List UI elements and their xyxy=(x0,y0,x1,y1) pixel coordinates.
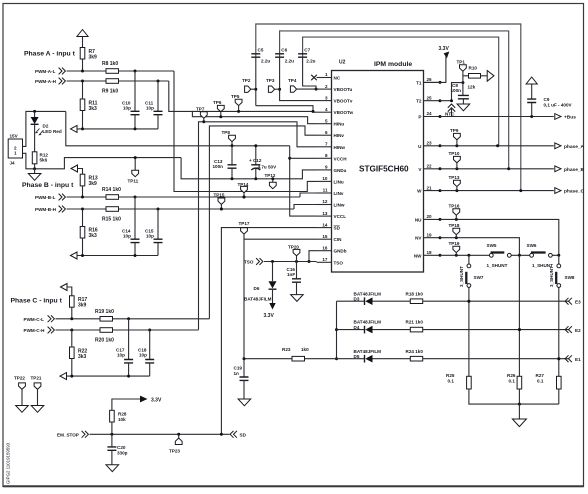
svg-text:1: 1 xyxy=(325,72,328,77)
svg-text:GIPG2 11019159593: GIPG2 11019159593 xyxy=(6,442,11,484)
U2 pin 9 GNDa xyxy=(317,169,332,171)
svg-text:3k3: 3k3 xyxy=(89,106,98,112)
U2 pin 8 VCCH xyxy=(317,157,332,159)
wire diode bus vertical xyxy=(336,301,338,359)
svg-text:C9: C9 xyxy=(544,97,550,102)
input E2 xyxy=(565,326,572,333)
svg-text:Phase B - inpu t: Phase B - inpu t xyxy=(22,182,74,189)
U2 pin 15 CIN xyxy=(317,238,332,240)
svg-text:10: 10 xyxy=(322,176,328,181)
buffer output arrow after R10 xyxy=(481,75,488,77)
resistor R20 1k0 xyxy=(100,328,113,333)
wire R28 to 3.3V arrow xyxy=(112,399,140,410)
svg-text:R10: R10 xyxy=(469,66,478,71)
wire R9 to A-H riser xyxy=(119,80,169,82)
svg-text:R23: R23 xyxy=(282,347,291,352)
svg-text:1k0: 1k0 xyxy=(301,347,309,352)
svg-text:3_SHUNT: 3_SHUNT xyxy=(549,266,554,287)
svg-text:11: 11 xyxy=(323,188,328,193)
input E3 xyxy=(565,298,572,305)
svg-text:R15 1k0: R15 1k0 xyxy=(102,217,121,223)
svg-text:10p: 10p xyxy=(139,353,147,358)
svg-text:NW: NW xyxy=(414,253,422,258)
svg-text:TP18: TP18 xyxy=(449,223,460,228)
svg-text:NV: NV xyxy=(415,236,422,241)
svg-text:STGIF5CH60: STGIF5CH60 xyxy=(359,165,409,174)
wire SD riser from EM_STOP to pin14 xyxy=(221,228,316,435)
U2 pin 11 LINv xyxy=(317,192,332,194)
svg-text:PWM-C-H: PWM-C-H xyxy=(24,328,46,333)
resistor R16 3k3 xyxy=(80,227,85,239)
U2 pin 13 VCCL xyxy=(317,215,332,217)
input SD arrow xyxy=(230,431,237,438)
svg-text:LINw: LINw xyxy=(334,203,345,208)
svg-text:LINu: LINu xyxy=(334,179,344,184)
pin 1 no-connect X xyxy=(311,75,317,80)
svg-text:100n: 100n xyxy=(213,164,224,169)
wire SW7 to R25 xyxy=(468,287,470,376)
svg-text:15V: 15V xyxy=(10,134,19,139)
svg-text:2: 2 xyxy=(325,84,328,89)
svg-text:SW6: SW6 xyxy=(527,243,537,248)
svg-text:3.3V: 3.3V xyxy=(439,46,450,52)
svg-text:E2: E2 xyxy=(575,328,581,333)
diode D6 BAT48JFILM to 3.3V xyxy=(272,262,274,282)
svg-text:W: W xyxy=(417,189,422,194)
wire J4 pin2 to 15V rail xyxy=(23,111,66,146)
svg-text:SD: SD xyxy=(334,226,341,231)
ground under C16 xyxy=(291,295,304,302)
svg-text:VBOOTu: VBOOTu xyxy=(334,87,353,92)
capacitor C9 0.1uF 400V xyxy=(531,84,533,99)
svg-text:5: 5 xyxy=(325,118,328,123)
svg-text:NTC: NTC xyxy=(445,112,455,117)
U2 pin 4 VBOOTw xyxy=(317,111,332,113)
wire A-L riser to LINu bus xyxy=(174,71,317,192)
svg-text:2.2u: 2.2u xyxy=(285,59,294,64)
svg-text:TP2: TP2 xyxy=(242,78,251,83)
svg-text:phase_C: phase_C xyxy=(564,189,585,195)
svg-text:E1: E1 xyxy=(575,357,581,362)
svg-text:3k9: 3k9 xyxy=(89,181,98,187)
svg-text:10p: 10p xyxy=(117,353,125,358)
svg-text:10p: 10p xyxy=(146,106,154,111)
svg-text:23: 23 xyxy=(427,141,433,146)
resistor R11 3k3 xyxy=(80,99,85,111)
svg-text:1nF: 1nF xyxy=(287,272,295,277)
svg-text:TP10: TP10 xyxy=(449,151,460,156)
U2 pin 18 NW xyxy=(424,254,441,256)
svg-text:100n: 100n xyxy=(451,88,462,93)
wire R27 to bottom rail xyxy=(558,389,560,404)
U2 pin 20 NU xyxy=(424,218,441,220)
svg-text:18: 18 xyxy=(427,250,433,255)
ground under C8 xyxy=(457,104,470,111)
wire R25 to bottom rail xyxy=(469,389,559,404)
wire R7 bottom to PWM-A-L line xyxy=(82,59,84,71)
svg-text:NU: NU xyxy=(415,217,422,222)
svg-text:R25: R25 xyxy=(446,373,455,378)
wire phase_B feedback row xyxy=(77,255,158,257)
ground rail under C13 C12 xyxy=(181,158,316,179)
svg-text:3k9: 3k9 xyxy=(78,303,87,309)
wire T1 to 3.3V xyxy=(424,58,446,82)
wire C-L riser to HINv bus xyxy=(209,126,316,319)
resistor R15 1k0 xyxy=(106,207,119,212)
wire PWM-B-L line xyxy=(67,196,107,198)
wire EM_STOP row to SD xyxy=(90,433,230,435)
svg-text:TP4: TP4 xyxy=(288,78,297,83)
wire TP17 CIN to pin15 and C19 leg xyxy=(243,234,245,359)
svg-text:12k: 12k xyxy=(468,85,476,90)
wire R7 top to power arrow xyxy=(82,37,84,48)
svg-text:PWM-C-L: PWM-C-L xyxy=(24,317,45,322)
svg-text:2.2u: 2.2u xyxy=(261,59,270,64)
svg-text:5k6: 5k6 xyxy=(40,158,48,163)
wire arrow to R13 top xyxy=(78,169,83,175)
svg-text:C5: C5 xyxy=(258,48,264,53)
U2 pin 22 V xyxy=(424,168,441,170)
wire PWM-C-H line xyxy=(56,329,101,331)
resistor R19 1k0 xyxy=(100,317,113,322)
svg-text:0.1: 0.1 xyxy=(537,379,544,384)
wires R22 xyxy=(71,330,73,376)
U2 pin 6 HINv xyxy=(317,134,332,136)
resistor R17 3k9 xyxy=(70,296,75,307)
svg-text:TP8: TP8 xyxy=(222,130,231,135)
U2 pin 3 VBOOTv xyxy=(317,100,332,102)
svg-text:phase_B: phase_B xyxy=(564,167,585,173)
svg-text:TP3: TP3 xyxy=(266,78,275,83)
wire B-L step into pin11 xyxy=(300,193,317,197)
input E1 xyxy=(565,355,572,362)
svg-text:PWM-B-L: PWM-B-L xyxy=(35,195,56,200)
svg-text:TP16: TP16 xyxy=(449,204,460,209)
svg-text:TP19: TP19 xyxy=(449,241,460,246)
wire R11 top xyxy=(82,81,84,99)
wire PWM-C-L line xyxy=(56,318,101,320)
U2 pin 5 HINu xyxy=(317,123,332,125)
U2 pin 7 HINw xyxy=(317,146,332,148)
wire R13 bottom xyxy=(82,186,84,197)
wire NV column through NW to R26 xyxy=(518,255,520,376)
svg-text:R19 1k0: R19 1k0 xyxy=(95,309,114,315)
svg-text:SD: SD xyxy=(240,433,247,438)
wire NV rail to R26 column xyxy=(440,238,519,256)
phase_B feedback net arrow xyxy=(71,252,78,259)
wires R16 xyxy=(82,209,84,256)
wire R24 to E1 xyxy=(423,358,569,360)
svg-text:TP7: TP7 xyxy=(196,107,205,112)
svg-text:TP1: TP1 xyxy=(457,60,466,65)
svg-text:25: 25 xyxy=(427,95,433,100)
wire P rail to +Bus xyxy=(440,116,554,118)
svg-text:J4: J4 xyxy=(10,161,16,166)
svg-text:19: 19 xyxy=(427,232,433,237)
svg-text:P: P xyxy=(418,115,421,120)
svg-text:D2: D2 xyxy=(43,124,49,129)
svg-text:IPM module: IPM module xyxy=(374,61,412,68)
resistor R9 1k0 xyxy=(106,79,119,84)
phase_B upper net arrow xyxy=(71,165,78,172)
U2 pin 17 TSO xyxy=(317,261,332,263)
svg-text:TP17: TP17 xyxy=(239,221,250,226)
wire NU rail to R27 column xyxy=(440,219,559,255)
svg-text:10p: 10p xyxy=(123,106,131,111)
U2 pin 12 LINw xyxy=(317,204,332,206)
svg-text:3.3V: 3.3V xyxy=(264,313,275,319)
wire R20 to C-H riser xyxy=(113,329,199,331)
LED D2 Red xyxy=(34,112,36,117)
wire C6 top bus to phase_B column xyxy=(280,31,509,169)
svg-text:TSO: TSO xyxy=(334,260,344,265)
svg-text:3k9: 3k9 xyxy=(89,55,98,61)
svg-text:VBOOTv: VBOOTv xyxy=(334,99,353,104)
wire PWM-A-H line xyxy=(67,80,107,82)
wire pin16 GNDb leg to TSO row xyxy=(309,251,317,262)
U2 pin 25 T2 xyxy=(424,100,441,102)
svg-text:0,1 uF - 400V: 0,1 uF - 400V xyxy=(544,102,573,107)
wire V rail to phase_B xyxy=(440,168,554,170)
wire A-H riser to HINu bus xyxy=(169,81,317,124)
svg-text:8: 8 xyxy=(325,153,328,158)
U2 pin 10 LINu xyxy=(317,180,332,182)
test point TP23 xyxy=(175,438,182,444)
wire 15V rail down to VCC rail xyxy=(66,111,290,145)
svg-text:10p: 10p xyxy=(146,234,154,239)
ground below shunt rail xyxy=(518,404,520,419)
svg-text:6: 6 xyxy=(325,130,328,135)
op-amp U2 IPM module box xyxy=(332,71,424,273)
svg-text:R14 1k0: R14 1k0 xyxy=(102,187,121,193)
svg-text:TP22: TP22 xyxy=(14,376,25,381)
output arrow phase_B xyxy=(555,166,561,172)
svg-text:GNDa: GNDa xyxy=(334,168,347,173)
svg-text:VCCH: VCCH xyxy=(334,156,348,161)
resistor R12 5k6 xyxy=(32,152,37,164)
wire C6 bottom into pin3 xyxy=(280,57,317,100)
svg-text:T2: T2 xyxy=(416,99,422,104)
svg-text:BAT48JFILM: BAT48JFILM xyxy=(354,349,382,354)
NTC marker under T2 xyxy=(448,104,455,112)
wire R8 to corner riser xyxy=(119,70,175,72)
power arrow above R7 xyxy=(77,30,88,37)
wire R14 to pin11 riser xyxy=(119,196,301,198)
svg-text:HINv: HINv xyxy=(334,133,345,138)
svg-text:PWM-A-H: PWM-A-H xyxy=(35,79,57,84)
wire TSO row into pin17 xyxy=(264,261,317,263)
U2 pin 26 T1 xyxy=(424,81,441,83)
svg-text:12: 12 xyxy=(322,199,328,204)
wire T2 to C8 branch xyxy=(440,83,463,101)
svg-text:16: 16 xyxy=(322,245,328,250)
wire W rail to phase_C xyxy=(440,190,554,192)
svg-text:SW8: SW8 xyxy=(565,275,575,280)
svg-text:26: 26 xyxy=(427,77,433,82)
output arrow phase_C xyxy=(555,188,561,194)
svg-text:3k3: 3k3 xyxy=(89,233,98,239)
svg-text:1: 1 xyxy=(14,151,17,156)
svg-text:TP6: TP6 xyxy=(213,100,222,105)
svg-text:2.2u: 2.2u xyxy=(306,59,315,64)
wire bus y111.4 to pin4 xyxy=(192,110,316,113)
resistor R8 1k0 xyxy=(106,69,119,74)
svg-text:R26: R26 xyxy=(507,373,516,378)
VCC rail with TP8 C13 C12 xyxy=(290,146,317,216)
svg-text:9: 9 xyxy=(325,165,328,170)
svg-text:24: 24 xyxy=(427,111,433,116)
svg-text:R8 1k0: R8 1k0 xyxy=(102,61,118,67)
svg-text:3: 3 xyxy=(325,95,328,100)
svg-text:R21 1k0: R21 1k0 xyxy=(406,320,424,325)
svg-text:LINv: LINv xyxy=(334,191,344,196)
svg-text:E3: E3 xyxy=(575,299,581,304)
wire VCC rail to pin8 VCCH xyxy=(290,157,317,159)
svg-text:HINu: HINu xyxy=(334,122,345,127)
wire C7 bottom into pin2 xyxy=(303,57,316,89)
wire PWM-B-H line xyxy=(67,208,107,210)
svg-text:22: 22 xyxy=(427,164,433,169)
svg-text:R27: R27 xyxy=(536,373,545,378)
svg-text:C6: C6 xyxy=(281,48,287,53)
svg-text:Phase C - inpu t: Phase C - inpu t xyxy=(11,298,63,305)
svg-text:TP21: TP21 xyxy=(31,376,42,381)
wire C5 top bus to phase_C column xyxy=(256,24,521,191)
svg-text:0.1: 0.1 xyxy=(448,379,455,384)
U2 pin 23 U xyxy=(424,145,441,147)
svg-text:10k: 10k xyxy=(118,417,126,422)
svg-text:TP15: TP15 xyxy=(214,193,225,198)
svg-text:TP20: TP20 xyxy=(288,245,299,250)
output arrow +Bus xyxy=(555,114,561,120)
svg-text:LED Red: LED Red xyxy=(43,129,62,134)
svg-text:17: 17 xyxy=(322,257,328,262)
svg-text:HINw: HINw xyxy=(334,145,346,150)
svg-text:SW7: SW7 xyxy=(474,275,484,280)
wire R19 to C-L riser xyxy=(113,318,210,320)
svg-text:PWM-B-H: PWM-B-H xyxy=(35,207,57,212)
svg-text:R24 1k0: R24 1k0 xyxy=(406,349,424,354)
phase_A feedback net arrow xyxy=(71,125,78,132)
phase_C upper net arrow xyxy=(61,284,68,291)
U2 pin 14 SD xyxy=(317,227,332,229)
output arrow phase_A xyxy=(555,143,561,149)
resistor R7 3k9 xyxy=(80,48,85,60)
U2 pin 2 VBOOTu xyxy=(317,88,332,90)
svg-text:TP11: TP11 xyxy=(128,179,139,184)
phase_C feedback net arrow xyxy=(60,373,67,380)
svg-text:VBOOTw: VBOOTw xyxy=(334,110,354,115)
svg-text:TP5: TP5 xyxy=(231,94,240,99)
svg-text:PWM-A-L: PWM-A-L xyxy=(35,69,56,74)
wire R21 to E2 xyxy=(423,329,569,331)
wire C7 top bus to phase_A column xyxy=(303,37,499,146)
wire U rail to phase_A xyxy=(440,145,554,147)
svg-text:Phase A - inpu t: Phase A - inpu t xyxy=(24,51,76,58)
wire C5 bottom to pin4 step xyxy=(255,57,257,105)
U2 pin 16 GNDb xyxy=(317,250,332,252)
svg-text:VCCL: VCCL xyxy=(334,214,347,219)
svg-text:4.7u 50V: 4.7u 50V xyxy=(258,164,278,169)
wire B-H step into pin12 xyxy=(294,205,317,210)
wire phase_A feedback row xyxy=(77,128,158,130)
wire PWM-A-L line xyxy=(67,70,107,72)
svg-text:13: 13 xyxy=(322,211,328,216)
svg-text:U2: U2 xyxy=(339,60,346,66)
svg-text:7: 7 xyxy=(325,142,328,147)
wire J4 pin1 to ground rail xyxy=(23,153,182,169)
connector J4 15V xyxy=(8,139,22,158)
ground below J4 xyxy=(34,169,36,174)
wire R18 to E3 xyxy=(423,300,569,302)
svg-text:14: 14 xyxy=(322,222,328,227)
svg-text:4: 4 xyxy=(325,107,328,112)
wire arrow to R17 top xyxy=(67,287,72,296)
wire C-H riser to HINw bus xyxy=(199,122,317,330)
svg-text:EM_STOP: EM_STOP xyxy=(57,432,79,437)
wire R17 bottom xyxy=(71,307,73,319)
svg-text:TP9: TP9 xyxy=(450,128,459,133)
wire SW8 to R27 xyxy=(558,287,560,376)
svg-text:C7: C7 xyxy=(304,48,310,53)
svg-text:TSO: TSO xyxy=(244,260,254,265)
svg-text:BAT48JFILM: BAT48JFILM xyxy=(244,297,272,302)
wire TP4 to pin2 xyxy=(297,88,317,90)
svg-text:C20: C20 xyxy=(117,445,126,450)
wire R15 to pin12 riser xyxy=(119,208,295,210)
wire R11 bottom to phase_A net row xyxy=(82,111,84,129)
wire D2 to R12 xyxy=(34,124,36,152)
svg-text:SW5: SW5 xyxy=(487,243,497,248)
svg-text:TP12: TP12 xyxy=(265,173,276,178)
wire R26 to bottom rail xyxy=(518,389,520,404)
svg-text:BAT48JFILM: BAT48JFILM xyxy=(354,320,382,325)
svg-text:R28: R28 xyxy=(118,412,127,417)
svg-text:TP13: TP13 xyxy=(449,175,460,180)
resistor R13 3k9 xyxy=(80,174,85,186)
svg-text:3.3V: 3.3V xyxy=(151,397,162,403)
svg-text:3_SHUNT: 3_SHUNT xyxy=(459,266,464,287)
svg-text:CIN: CIN xyxy=(334,237,343,242)
wire phase_C feedback row xyxy=(67,375,150,377)
svg-text:15: 15 xyxy=(322,234,328,239)
U2 pin 19 NV xyxy=(424,237,441,239)
svg-text:20: 20 xyxy=(427,214,433,219)
switch SW7 3_SHUNT vertical xyxy=(468,255,470,264)
svg-text:R20 1k0: R20 1k0 xyxy=(95,338,114,344)
svg-text:21: 21 xyxy=(427,185,433,190)
wire NW rail with switches xyxy=(440,254,559,256)
svg-text:0.1: 0.1 xyxy=(509,379,516,384)
U2 pin 24 P xyxy=(424,116,441,118)
U2 pin 21 W xyxy=(424,190,441,192)
switch SW8 3_SHUNT vertical xyxy=(558,255,560,264)
svg-text:R18 1k0: R18 1k0 xyxy=(406,291,424,296)
power arrow above C9 xyxy=(526,77,537,84)
3.3V down arrow under D6 xyxy=(272,289,274,303)
svg-text:1_SHUNT: 1_SHUNT xyxy=(487,263,508,268)
svg-text:+Bus: +Bus xyxy=(564,115,576,121)
svg-text:TP23: TP23 xyxy=(169,449,180,454)
svg-text:1n: 1n xyxy=(234,371,240,376)
svg-text:phase_A: phase_A xyxy=(564,144,585,150)
U2 pin 1 NC xyxy=(317,77,332,79)
svg-text:NC: NC xyxy=(334,76,341,81)
svg-text:C19: C19 xyxy=(234,366,243,371)
resistor R22 3k3 xyxy=(70,347,75,359)
svg-text:GNDb: GNDb xyxy=(334,249,347,254)
svg-text:BAT48JFILM: BAT48JFILM xyxy=(354,291,382,296)
